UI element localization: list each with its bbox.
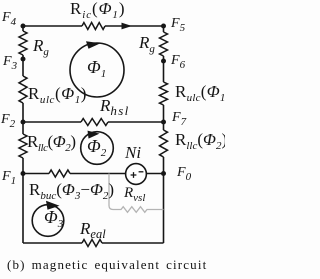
value label R_vsl (grey leakage branch) xyxy=(124,186,145,201)
value label R_g (right) xyxy=(139,34,155,51)
node F3 junction dot xyxy=(21,57,26,62)
label R_ic(Phi1) for top resistor xyxy=(70,0,125,17)
node label F1 xyxy=(2,170,16,184)
flux loop Phi2 (clockwise circle arrow) xyxy=(81,132,114,165)
resistor R_buc(Phi3-Phi2) zigzag on third wire xyxy=(49,170,70,177)
wire: right R_llc to F0 xyxy=(163,157,165,174)
value label R_llc(Phi2) (left) xyxy=(27,133,76,150)
wire: R_g to F3 xyxy=(22,55,24,76)
arrowhead of flux loop Phi1 xyxy=(86,41,101,49)
wire: right R_g to F6 xyxy=(163,56,165,82)
node label F7 xyxy=(172,111,186,125)
MMF source Ni (circle with +/-) xyxy=(126,164,147,185)
wire: F1 to R_buc xyxy=(23,173,49,175)
flux label Phi2 xyxy=(87,137,106,155)
node label F4 xyxy=(2,11,16,25)
resistor R_g (left) zigzag xyxy=(19,31,27,55)
resistor R_llc(Phi2) (left) zigzag xyxy=(19,134,27,158)
node label F6 xyxy=(171,54,185,68)
resistor R_g (right) zigzag xyxy=(160,32,168,56)
wire: R_llc to F1 xyxy=(22,158,24,174)
arrowhead on top wire (flux direction, pointing right) xyxy=(122,23,132,30)
wire: top segment right of R_ic with flux-direction arrow xyxy=(105,25,164,27)
resistor R_ulc(Phi1) (right) zigzag xyxy=(160,82,168,105)
node F5 junction dot xyxy=(161,24,166,29)
flux label Phi1 xyxy=(87,58,106,76)
wire: Ni source to F0 xyxy=(146,173,164,175)
node F2 junction dot xyxy=(21,120,26,125)
wire: F2 to R_hsl xyxy=(23,121,81,123)
arrowhead of flux loop Phi3 xyxy=(46,201,60,210)
resistor R_ulc(Phi1) (left) zigzag xyxy=(19,76,27,103)
node label F5 xyxy=(171,17,185,31)
value label R_ulc(Phi1) (right) xyxy=(175,83,232,100)
flux loop Phi3 (clockwise circle arrow) xyxy=(32,205,64,237)
wire: R_hsl to F7 xyxy=(108,121,164,123)
wire: bottom-left corner to R_eal xyxy=(23,242,82,244)
wire: F2 down to R_llc (left) xyxy=(22,122,24,134)
flux label Phi3 xyxy=(44,208,63,226)
node F4 junction dot xyxy=(21,24,26,29)
node F6 junction dot xyxy=(161,59,166,64)
left rail: F4 to R_g lead xyxy=(22,26,24,31)
resistor R_eal zigzag on bottom wire xyxy=(82,240,102,247)
value label R_ulc(Phi1) (left) xyxy=(28,85,87,102)
node label F0 xyxy=(177,166,191,180)
wire: right R_ulc to F7 xyxy=(163,105,165,122)
value label R_llc(Phi2) (right) xyxy=(175,131,227,148)
resistor R_hsl zigzag on second wire xyxy=(81,119,108,126)
caption: (b) magnetic equivalent circuit xyxy=(7,257,225,273)
node F7 junction dot xyxy=(161,120,166,125)
value label R_g (left) xyxy=(33,37,49,54)
wire: R_eal to bottom-right corner xyxy=(102,242,164,244)
resistor R_ic(Phi1) zigzag on top wire xyxy=(82,23,105,30)
right rail: F5 to R_g lead xyxy=(163,26,165,32)
flux loop Phi1 (clockwise circle arrow) xyxy=(70,43,124,97)
value label R_hsl xyxy=(100,97,130,114)
node label F3 xyxy=(3,55,17,69)
wire: left rail F1 down to bottom-left corner xyxy=(22,174,24,244)
node F0 junction dot xyxy=(161,171,166,176)
minus sign inside Ni source xyxy=(139,171,144,173)
node label F2 xyxy=(1,113,15,127)
arrowhead of flux loop Phi2 xyxy=(88,131,100,139)
value label Ni for MMF source xyxy=(125,144,141,161)
wire: R_ulc to F2 xyxy=(22,103,24,122)
wire: top F4-F5 segment left of R_ic xyxy=(23,25,82,27)
value label R_eal xyxy=(80,220,106,237)
wire: R_buc to Ni source xyxy=(70,173,126,175)
node F1 junction dot xyxy=(21,171,26,176)
resistor R_llc(Phi2) (right) zigzag xyxy=(160,130,168,157)
wire: F7 down to right R_llc xyxy=(163,122,165,130)
value label R_buc(Phi3-Phi2) xyxy=(29,181,114,198)
plus sign inside Ni source xyxy=(131,172,137,178)
wire: grey leakage branch tap from F1-F0 wire down and across (R_vsl branch) xyxy=(109,174,164,213)
wire: right rail F0 down to bottom-right corner xyxy=(163,174,165,244)
